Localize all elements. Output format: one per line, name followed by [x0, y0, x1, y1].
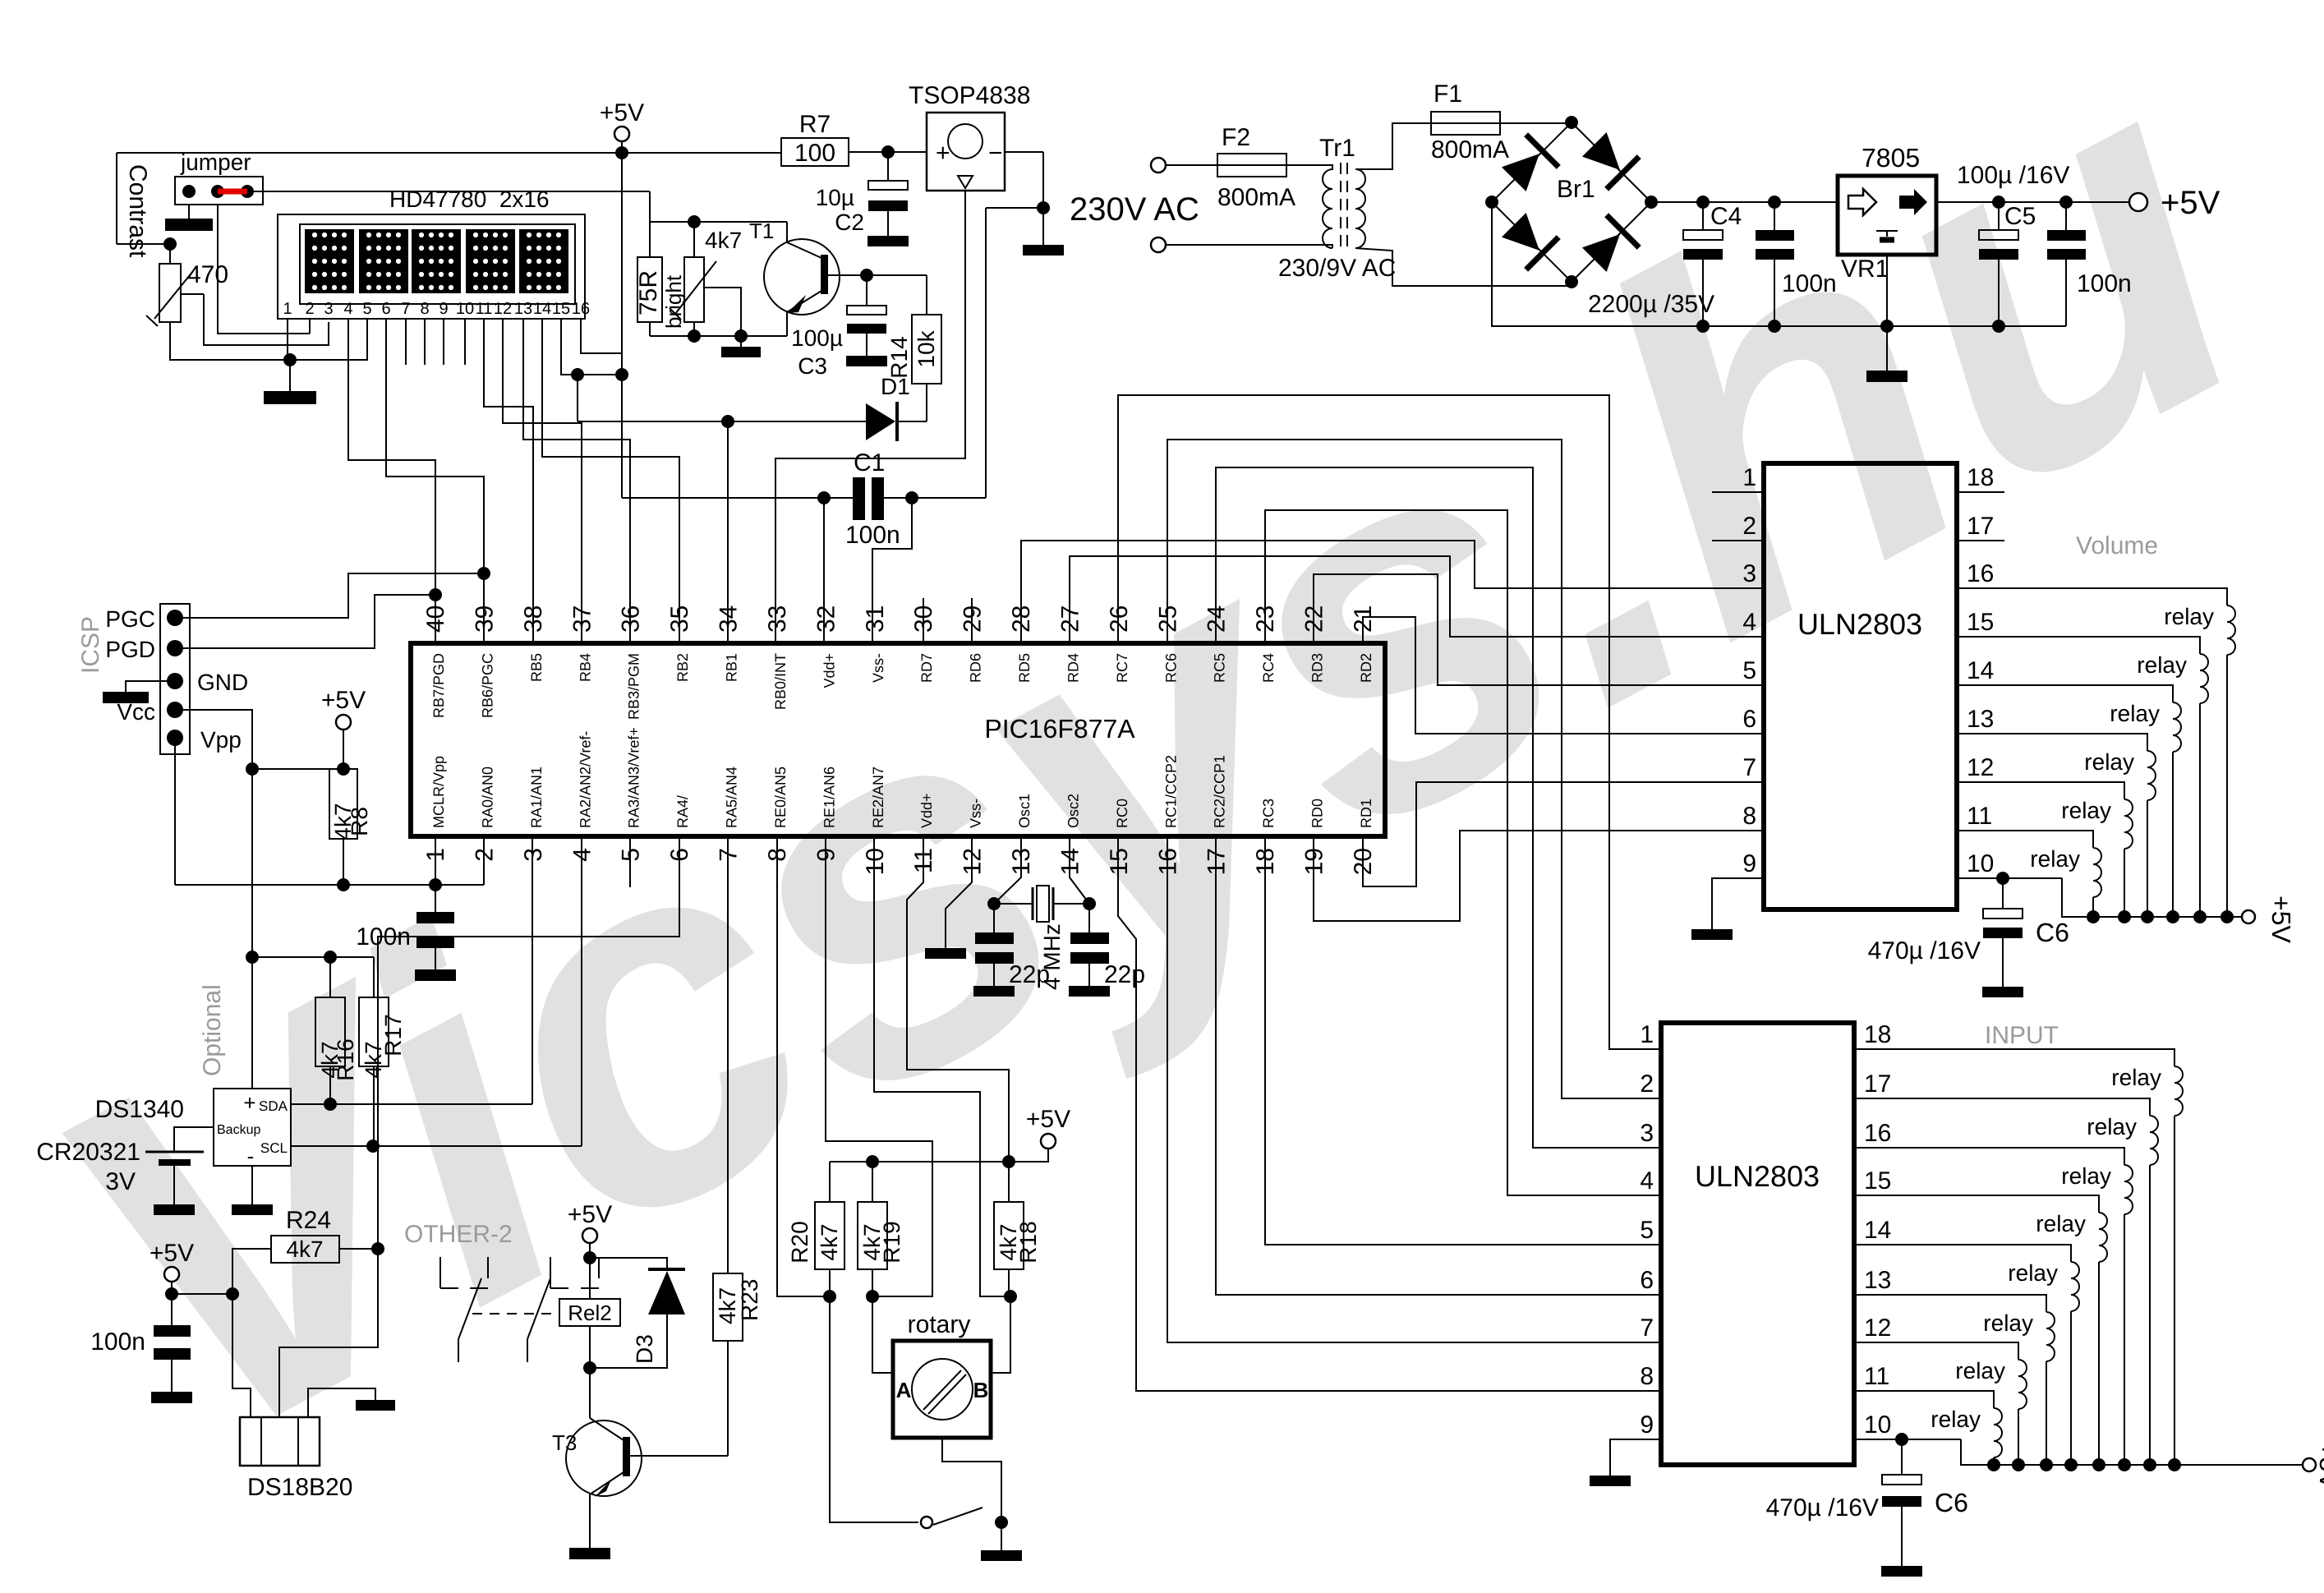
svg-text:DS18B20: DS18B20 [247, 1474, 352, 1501]
wire ULN2 pin15 [1854, 1195, 2099, 1213]
svg-text:14: 14 [1056, 848, 1084, 875]
wire 7805 out rail [1936, 201, 2131, 203]
diode Br1 bottom-left [1498, 209, 1558, 269]
svg-text:-: - [247, 1144, 255, 1168]
svg-text:Volume: Volume [2076, 532, 2158, 559]
stub ULN1 pin2 [1712, 540, 1764, 541]
wire R24 left [232, 1249, 271, 1294]
svg-text:24: 24 [1203, 605, 1231, 633]
wire LCD pin5 tie to pin1 [290, 319, 367, 360]
svg-text:RC4: RC4 [1260, 653, 1277, 683]
ground (T1 emitter) [740, 336, 742, 347]
svg-text:VR1: VR1 [1841, 256, 1889, 283]
resistor R17 4k7 [373, 957, 375, 997]
wire SDA to PIC pin3 [291, 1103, 532, 1105]
wire ULN1 pin10 / +5V rail [1957, 877, 2062, 879]
wire jumper left pin to ground [188, 205, 190, 219]
svg-text:relay: relay [2137, 652, 2187, 678]
svg-text:6: 6 [1640, 1267, 1654, 1294]
svg-text:4k7: 4k7 [996, 1223, 1021, 1260]
svg-text:7: 7 [401, 300, 410, 318]
wire LCD pin11 to PIC pin38 [484, 319, 533, 643]
svg-text:10: 10 [862, 848, 889, 875]
wire LCD pin14 to PIC pin35 [542, 319, 679, 643]
svg-text:4: 4 [343, 300, 352, 318]
wire ULN2 pin16 [1854, 1148, 2124, 1165]
wire ULN1 pin9 to ground [1712, 878, 1764, 929]
wire PIC pin1 MCLR [435, 836, 436, 885]
svg-text:800mA: 800mA [1431, 136, 1509, 163]
svg-text:ULN2803: ULN2803 [1695, 1159, 1820, 1193]
svg-text:32: 32 [812, 605, 840, 633]
svg-text:RC6: RC6 [1162, 653, 1179, 683]
capacitor C5 100u [1998, 202, 2000, 230]
wire PIC pin12 Vss to ground [946, 836, 972, 948]
svg-text:470: 470 [187, 261, 228, 288]
svg-text:RB7/PGD: RB7/PGD [430, 653, 447, 718]
svg-text:RC7: RC7 [1114, 653, 1130, 683]
T1 base wire to C3/R14 [828, 274, 927, 276]
svg-text:12: 12 [1967, 754, 1994, 781]
capacitor 100n (C5 side) [2065, 202, 2067, 230]
IC PIC16F877A [411, 643, 1385, 836]
svg-text:+5V: +5V [1026, 1106, 1070, 1133]
svg-text:+5V: +5V [600, 99, 644, 127]
wire backlight col from LCD pin15 node [577, 375, 578, 421]
svg-text:relay: relay [1955, 1358, 2005, 1384]
svg-text:SCL: SCL [260, 1140, 288, 1156]
resistor 75R [637, 257, 662, 322]
ground (switch) [981, 1550, 1022, 1561]
svg-text:75R: 75R [635, 270, 662, 315]
wire jumper middle pin to LCD pin2 [218, 205, 252, 334]
svg-text:5: 5 [1742, 657, 1756, 684]
wire pot wiper to LCD pin3 [204, 294, 329, 345]
svg-text:100µ: 100µ [791, 325, 843, 351]
svg-text:RB0/INT: RB0/INT [772, 653, 789, 710]
svg-text:2: 2 [1640, 1070, 1654, 1098]
wire ULN2 pin18 [1854, 1049, 2174, 1066]
svg-text:T3: T3 [552, 1430, 577, 1455]
svg-text:1: 1 [422, 848, 449, 862]
resistor R7 100 [781, 138, 849, 166]
wire F2 to Tr1 [1286, 164, 1326, 166]
wire +5V to R24/left lead [172, 1293, 232, 1295]
svg-text:C6: C6 [2036, 918, 2069, 947]
wire ICSP PGC to PIC pin39 [175, 573, 485, 618]
jumper JP1 [175, 177, 263, 205]
capacitor C6 470u (INPUT) [1901, 1439, 1903, 1475]
wire switch to ground [1001, 1522, 1002, 1550]
svg-text:RA0/AN0: RA0/AN0 [479, 767, 495, 828]
svg-text:TSOP4838: TSOP4838 [909, 82, 1030, 109]
wire PIC pin16 RC1 to ULN2 pin7 [1167, 836, 1661, 1342]
wire PIC pin23 RC4 to ULN2 pin4 [1265, 510, 1661, 1195]
wire LCD pin2 stub [309, 319, 311, 334]
fuse F2 800mA [1166, 164, 1217, 166]
transistor T1 [764, 239, 840, 315]
node +5V (rotary) [1041, 1134, 1056, 1149]
wire Tr1 secondary bottom to bridge [1355, 248, 1572, 286]
svg-text:31: 31 [862, 605, 889, 633]
ground (C6 Volume) [1982, 987, 2023, 997]
relay coil (INPUT 7) [2018, 1360, 2027, 1409]
svg-text:8: 8 [1742, 803, 1756, 830]
wire LCD pin16 to +5V col [581, 319, 622, 353]
svg-text:RC1/CCP2: RC1/CCP2 [1162, 755, 1179, 828]
wire pullup feed y=1165 [252, 956, 374, 958]
svg-text:C6: C6 [1935, 1488, 1968, 1517]
svg-text:relay: relay [2036, 1211, 2086, 1236]
svg-text:13: 13 [1967, 706, 1994, 733]
svg-text:1: 1 [1742, 464, 1756, 491]
resistor R23 4k7 [727, 836, 729, 1273]
svg-text:RD7: RD7 [918, 653, 935, 683]
wire bridge plus rail [1651, 201, 1838, 203]
svg-text:30: 30 [910, 605, 937, 633]
svg-text:11: 11 [1864, 1363, 1889, 1390]
capacitor 100n (MCLR) [435, 885, 436, 912]
capacitor 22p (left) [975, 932, 1014, 944]
relay coil (INPUT 4) [2099, 1213, 2107, 1262]
ground (VR1) [1866, 371, 1908, 382]
svg-text:RD3: RD3 [1309, 653, 1326, 683]
svg-text:RA5/AN4: RA5/AN4 [724, 767, 740, 828]
node +5V (Volume rail) [2242, 910, 2255, 923]
svg-text:100n: 100n [845, 522, 900, 549]
wire LCD pin15 to +5V col [561, 319, 622, 375]
relay coil (Volume 5) [2124, 799, 2133, 849]
svg-text:13: 13 [1008, 848, 1035, 875]
ground (22p right) [1069, 986, 1110, 997]
svg-text:800mA: 800mA [1217, 184, 1295, 211]
svg-text:RD5: RD5 [1016, 653, 1033, 683]
stub ULN1 pin17 [1957, 540, 2004, 541]
svg-text:CR20321: CR20321 [36, 1139, 140, 1166]
svg-text:RE1/AN6: RE1/AN6 [821, 767, 837, 828]
svg-text:RC2/CCP1: RC2/CCP1 [1212, 755, 1228, 828]
svg-text:22p: 22p [1009, 961, 1050, 988]
svg-text:470µ /16V: 470µ /16V [1868, 937, 1981, 965]
svg-text:RA3/AN3/Vref+: RA3/AN3/Vref+ [626, 727, 642, 828]
relay coil (Volume 4) [2147, 751, 2156, 800]
svg-text:4k7: 4k7 [286, 1236, 323, 1262]
svg-text:F1: F1 [1434, 81, 1462, 108]
svg-text:GND: GND [197, 670, 248, 695]
wire LCD pin4 to PIC pin40 [348, 319, 435, 643]
wire PIC pin22 RD3 to ULN1 pin5 [1314, 574, 1764, 685]
svg-text:relay: relay [2111, 1065, 2161, 1090]
svg-text:rotary: rotary [908, 1311, 971, 1338]
svg-text:RD2: RD2 [1358, 653, 1374, 683]
svg-text:+5V: +5V [2314, 1442, 2324, 1489]
svg-text:T1: T1 [749, 219, 774, 243]
wire LCD pin1 to ground [287, 319, 288, 360]
svg-text:4k7: 4k7 [859, 1223, 885, 1260]
svg-text:18: 18 [1864, 1021, 1891, 1048]
svg-text:9: 9 [1742, 850, 1756, 877]
svg-text:10: 10 [456, 300, 474, 318]
node +5V (PSU out) [2129, 193, 2147, 211]
svg-text:R14: R14 [886, 336, 912, 378]
wire ULN2 pin11 [1854, 1391, 1994, 1408]
wire C1 right to TSOP ground column [985, 208, 987, 498]
ground (jumper) [165, 219, 213, 231]
ground (ULN2 pin9) [1590, 1476, 1631, 1486]
svg-text:3: 3 [324, 300, 333, 318]
wire emitter rail y=409 [650, 335, 787, 337]
svg-text:SDA: SDA [259, 1098, 288, 1114]
svg-text:100µ /16V: 100µ /16V [1957, 162, 2069, 189]
svg-text:100n: 100n [1782, 270, 1837, 297]
svg-text:7: 7 [1640, 1314, 1654, 1342]
T3 collector [590, 1418, 624, 1440]
wire TSOP minus to ground [1005, 151, 1043, 153]
wire ULN1 pin15 [1957, 637, 2200, 654]
svg-text:39: 39 [471, 605, 498, 633]
svg-text:D3: D3 [632, 1334, 657, 1364]
resistor R8 4k7 [329, 769, 357, 839]
wire PIC pin21 RD2 to ULN1 pin6 [1363, 617, 1764, 734]
wire PIC pin20 RD1 to ULN1 pin7 [1363, 782, 1764, 886]
wire PIC pin19 RD0 to ULN1 pin8 [1314, 831, 1764, 921]
svg-text:35: 35 [666, 605, 693, 633]
wire +5V rail y=606 [622, 497, 853, 499]
svg-text:Vdd+: Vdd+ [821, 653, 837, 688]
wire rotary B [991, 1296, 1010, 1373]
svg-text:29: 29 [960, 605, 987, 633]
wire ULN2 pin13 [1854, 1295, 2046, 1312]
wire DS18B20 VCC lead [232, 1294, 251, 1417]
svg-text:relay: relay [2110, 701, 2160, 726]
wire PIC pin14 Osc2 [1070, 836, 1089, 932]
svg-text:+5V: +5V [2161, 185, 2220, 221]
svg-text:6: 6 [1742, 706, 1756, 733]
svg-text:Optional: Optional [199, 984, 226, 1076]
svg-text:9: 9 [439, 300, 448, 318]
svg-text:PGD: PGD [105, 637, 155, 662]
svg-text:10: 10 [1967, 850, 1994, 877]
wire DS18B20 DQ lead [279, 1249, 378, 1417]
crystal 4 MHz [994, 903, 1033, 905]
svg-text:11: 11 [476, 300, 493, 318]
svg-text:relay: relay [2084, 749, 2134, 775]
svg-text:14: 14 [533, 300, 551, 318]
svg-text:Rel2: Rel2 [568, 1301, 611, 1325]
svg-text:Vpp: Vpp [200, 727, 242, 753]
svg-text:4k7: 4k7 [715, 1287, 740, 1324]
svg-text:230/9V AC: 230/9V AC [1278, 255, 1396, 282]
svg-text:Vdd+: Vdd+ [918, 793, 935, 828]
wire collector rail y=261 [650, 221, 787, 223]
svg-text:22p: 22p [1104, 961, 1145, 988]
svg-text:100n: 100n [90, 1328, 145, 1356]
svg-text:5: 5 [618, 848, 645, 862]
wire PIC pin9 to R19 bottom [826, 836, 932, 1296]
ground (MCLR 100n) [415, 969, 456, 981]
svg-text:8: 8 [1640, 1363, 1654, 1390]
wire ULN1 pin13 [1957, 734, 2147, 751]
wire R24 right / DQ node [339, 1248, 378, 1250]
capacitor 100n (C4 side) [1774, 202, 1775, 230]
jumper red link [218, 189, 247, 195]
svg-text:1: 1 [283, 300, 292, 318]
svg-text:26: 26 [1106, 605, 1133, 633]
svg-text:16: 16 [1864, 1120, 1891, 1147]
svg-text:13: 13 [514, 300, 532, 318]
svg-text:RE0/AN5: RE0/AN5 [772, 767, 789, 828]
resistor R18 4k7 [1008, 1162, 1010, 1202]
capacitor C3 100u [866, 275, 867, 306]
IC ULN2803 (INPUT) [1661, 1023, 1854, 1465]
svg-text:19: 19 [1301, 848, 1328, 875]
stubs LCD pins 7-10 n/c [405, 319, 407, 365]
svg-text:A: A [896, 1378, 912, 1402]
svg-text:Osc1: Osc1 [1016, 794, 1033, 828]
wire bright wiper to emitter rail [703, 288, 741, 336]
ground (DS18B20) [356, 1400, 395, 1411]
svg-text:5: 5 [1640, 1217, 1654, 1244]
ground (ICSP) [103, 692, 149, 703]
ground (C6 INPUT) [1881, 1566, 1922, 1577]
svg-text:jumper: jumper [180, 150, 251, 175]
relay coil (INPUT 3) [2124, 1165, 2133, 1214]
svg-text:C3: C3 [798, 353, 827, 379]
svg-text:+5V: +5V [568, 1201, 612, 1228]
svg-text:16: 16 [1967, 560, 1994, 587]
svg-text:RD1: RD1 [1358, 799, 1374, 828]
svg-text:relay: relay [2030, 846, 2080, 872]
wire Tr1 secondary top to F1 [1355, 123, 1431, 169]
svg-text:HD47780 2x16: HD47780 2x16 [389, 186, 550, 212]
svg-text:4k7: 4k7 [817, 1223, 842, 1260]
diode D3 [590, 1258, 667, 1269]
svg-text:RC3: RC3 [1260, 799, 1277, 828]
wire rotary common to switch [942, 1438, 1001, 1522]
svg-text:17: 17 [1864, 1070, 1891, 1098]
svg-text:100n: 100n [2077, 270, 2132, 297]
wire LCD pin6 to PIC pin39 [386, 319, 484, 643]
wire ULN2 pin12 [1854, 1342, 2018, 1360]
svg-text:4k7: 4k7 [705, 228, 742, 253]
wire PIC pin10 to R18 bottom [874, 836, 1010, 1296]
svg-text:13: 13 [1864, 1267, 1891, 1294]
resistor R16 4k7 [329, 957, 331, 997]
svg-text:C1: C1 [854, 449, 885, 477]
svg-text:ULN2803: ULN2803 [1797, 607, 1922, 641]
svg-text:RB4: RB4 [577, 653, 593, 682]
stub ULN1 pin18 [1957, 491, 2004, 493]
svg-text:relay: relay [1931, 1407, 1981, 1432]
stub PIC pin30 RD7 [923, 598, 924, 643]
svg-text:12: 12 [1864, 1314, 1891, 1342]
svg-text:relay: relay [2061, 798, 2111, 823]
svg-text:Osc2: Osc2 [1065, 794, 1081, 828]
wire ULN2 pin14 [1854, 1245, 2071, 1262]
wire DS1340 minus to ground [251, 1166, 253, 1204]
svg-text:36: 36 [618, 605, 645, 633]
relay coil (Volume 1) [2227, 605, 2235, 655]
dashed link to Rel2 [472, 1313, 559, 1314]
svg-text:4: 4 [568, 848, 596, 862]
svg-text:RA1/AN1: RA1/AN1 [528, 767, 545, 828]
wire SCL to PIC pin4 [291, 1145, 582, 1147]
ground (22p left) [973, 986, 1015, 997]
wire ULN1 pin16 [1957, 588, 2227, 605]
wire PIC pin26 RC7 to ULN2 pin1 [1118, 395, 1661, 1049]
diode Br1 top-right [1578, 128, 1639, 189]
wire PIC pin31 Vss [872, 498, 912, 643]
wire PIC pin17 RC2 to ULN2 pin6 [1216, 836, 1661, 1295]
svg-text:C5: C5 [2004, 203, 2036, 230]
svg-text:7: 7 [1742, 754, 1756, 781]
wire PIC pin27 RD4 to ULN1 pin4 [1070, 556, 1764, 643]
wire LCD pin13 to PIC pin36 [523, 319, 630, 643]
svg-text:OTHER-2: OTHER-2 [404, 1221, 513, 1248]
svg-text:bright: bright [661, 274, 686, 329]
svg-text:RB1: RB1 [724, 653, 740, 682]
svg-text:11: 11 [1967, 803, 1992, 830]
potentiometer bright 4k7 [684, 257, 704, 322]
wire PIC pin8 to R20 bottom [777, 836, 830, 1296]
IC ULN2803 (Volume) [1764, 463, 1957, 909]
svg-text:relay: relay [2061, 1163, 2111, 1189]
relay coil (Volume 2) [2200, 654, 2208, 703]
svg-text:RB2: RB2 [674, 653, 691, 682]
wire +5V column to DS1340 [251, 769, 253, 957]
relay coil (INPUT 6) [2046, 1312, 2055, 1361]
wire ULN1 pin11 [1957, 831, 2093, 848]
svg-text:17: 17 [1967, 513, 1994, 540]
wire PIC pin18 RC3 to ULN2 pin5 [1265, 836, 1661, 1245]
wire PIC pin32 Vdd [823, 498, 825, 643]
wire PIC pin34 to D1 line [727, 421, 729, 643]
svg-text:+: + [243, 1090, 255, 1115]
svg-text:10µ: 10µ [816, 185, 854, 210]
svg-text:18: 18 [1967, 464, 1994, 491]
wire PIC pin2 RA0 [483, 836, 485, 885]
wire DQ up to PIC pin6 RA4 [378, 836, 679, 1249]
svg-text:+: + [936, 140, 950, 167]
svg-text:RC5: RC5 [1212, 653, 1228, 683]
svg-text:16: 16 [572, 300, 590, 318]
svg-text:RE2/AN7: RE2/AN7 [870, 767, 886, 828]
svg-text:RA4/: RA4/ [674, 795, 691, 828]
svg-text:R7: R7 [799, 111, 831, 138]
wire ICSP Vcc to +5V node [175, 710, 252, 769]
ground (TSOP) [1023, 245, 1064, 256]
svg-text:33: 33 [764, 605, 791, 633]
wire R8 bottom to MCLR line [343, 839, 344, 885]
svg-text:relay: relay [2087, 1114, 2137, 1140]
wire ULN1 pin12 [1957, 782, 2124, 799]
svg-text:1: 1 [1640, 1021, 1654, 1048]
ground (DS1340) [232, 1204, 273, 1215]
svg-text:15: 15 [552, 300, 570, 318]
svg-text:D1: D1 [881, 374, 910, 399]
wire ULN2 pin17 [1854, 1098, 2150, 1116]
ground (LCD pin1) [264, 391, 316, 404]
node +5V (R8) [336, 715, 351, 730]
svg-text:MCLR/Vpp: MCLR/Vpp [430, 756, 447, 828]
svg-text:230V AC: 230V AC [1070, 191, 1199, 228]
svg-text:37: 37 [568, 605, 596, 633]
svg-text:PIC16F877A: PIC16F877A [984, 714, 1135, 744]
svg-text:2: 2 [471, 848, 498, 862]
svg-text:relay: relay [2164, 604, 2214, 629]
terminal 230V line [1151, 158, 1166, 173]
svg-text:15: 15 [1967, 609, 1994, 636]
